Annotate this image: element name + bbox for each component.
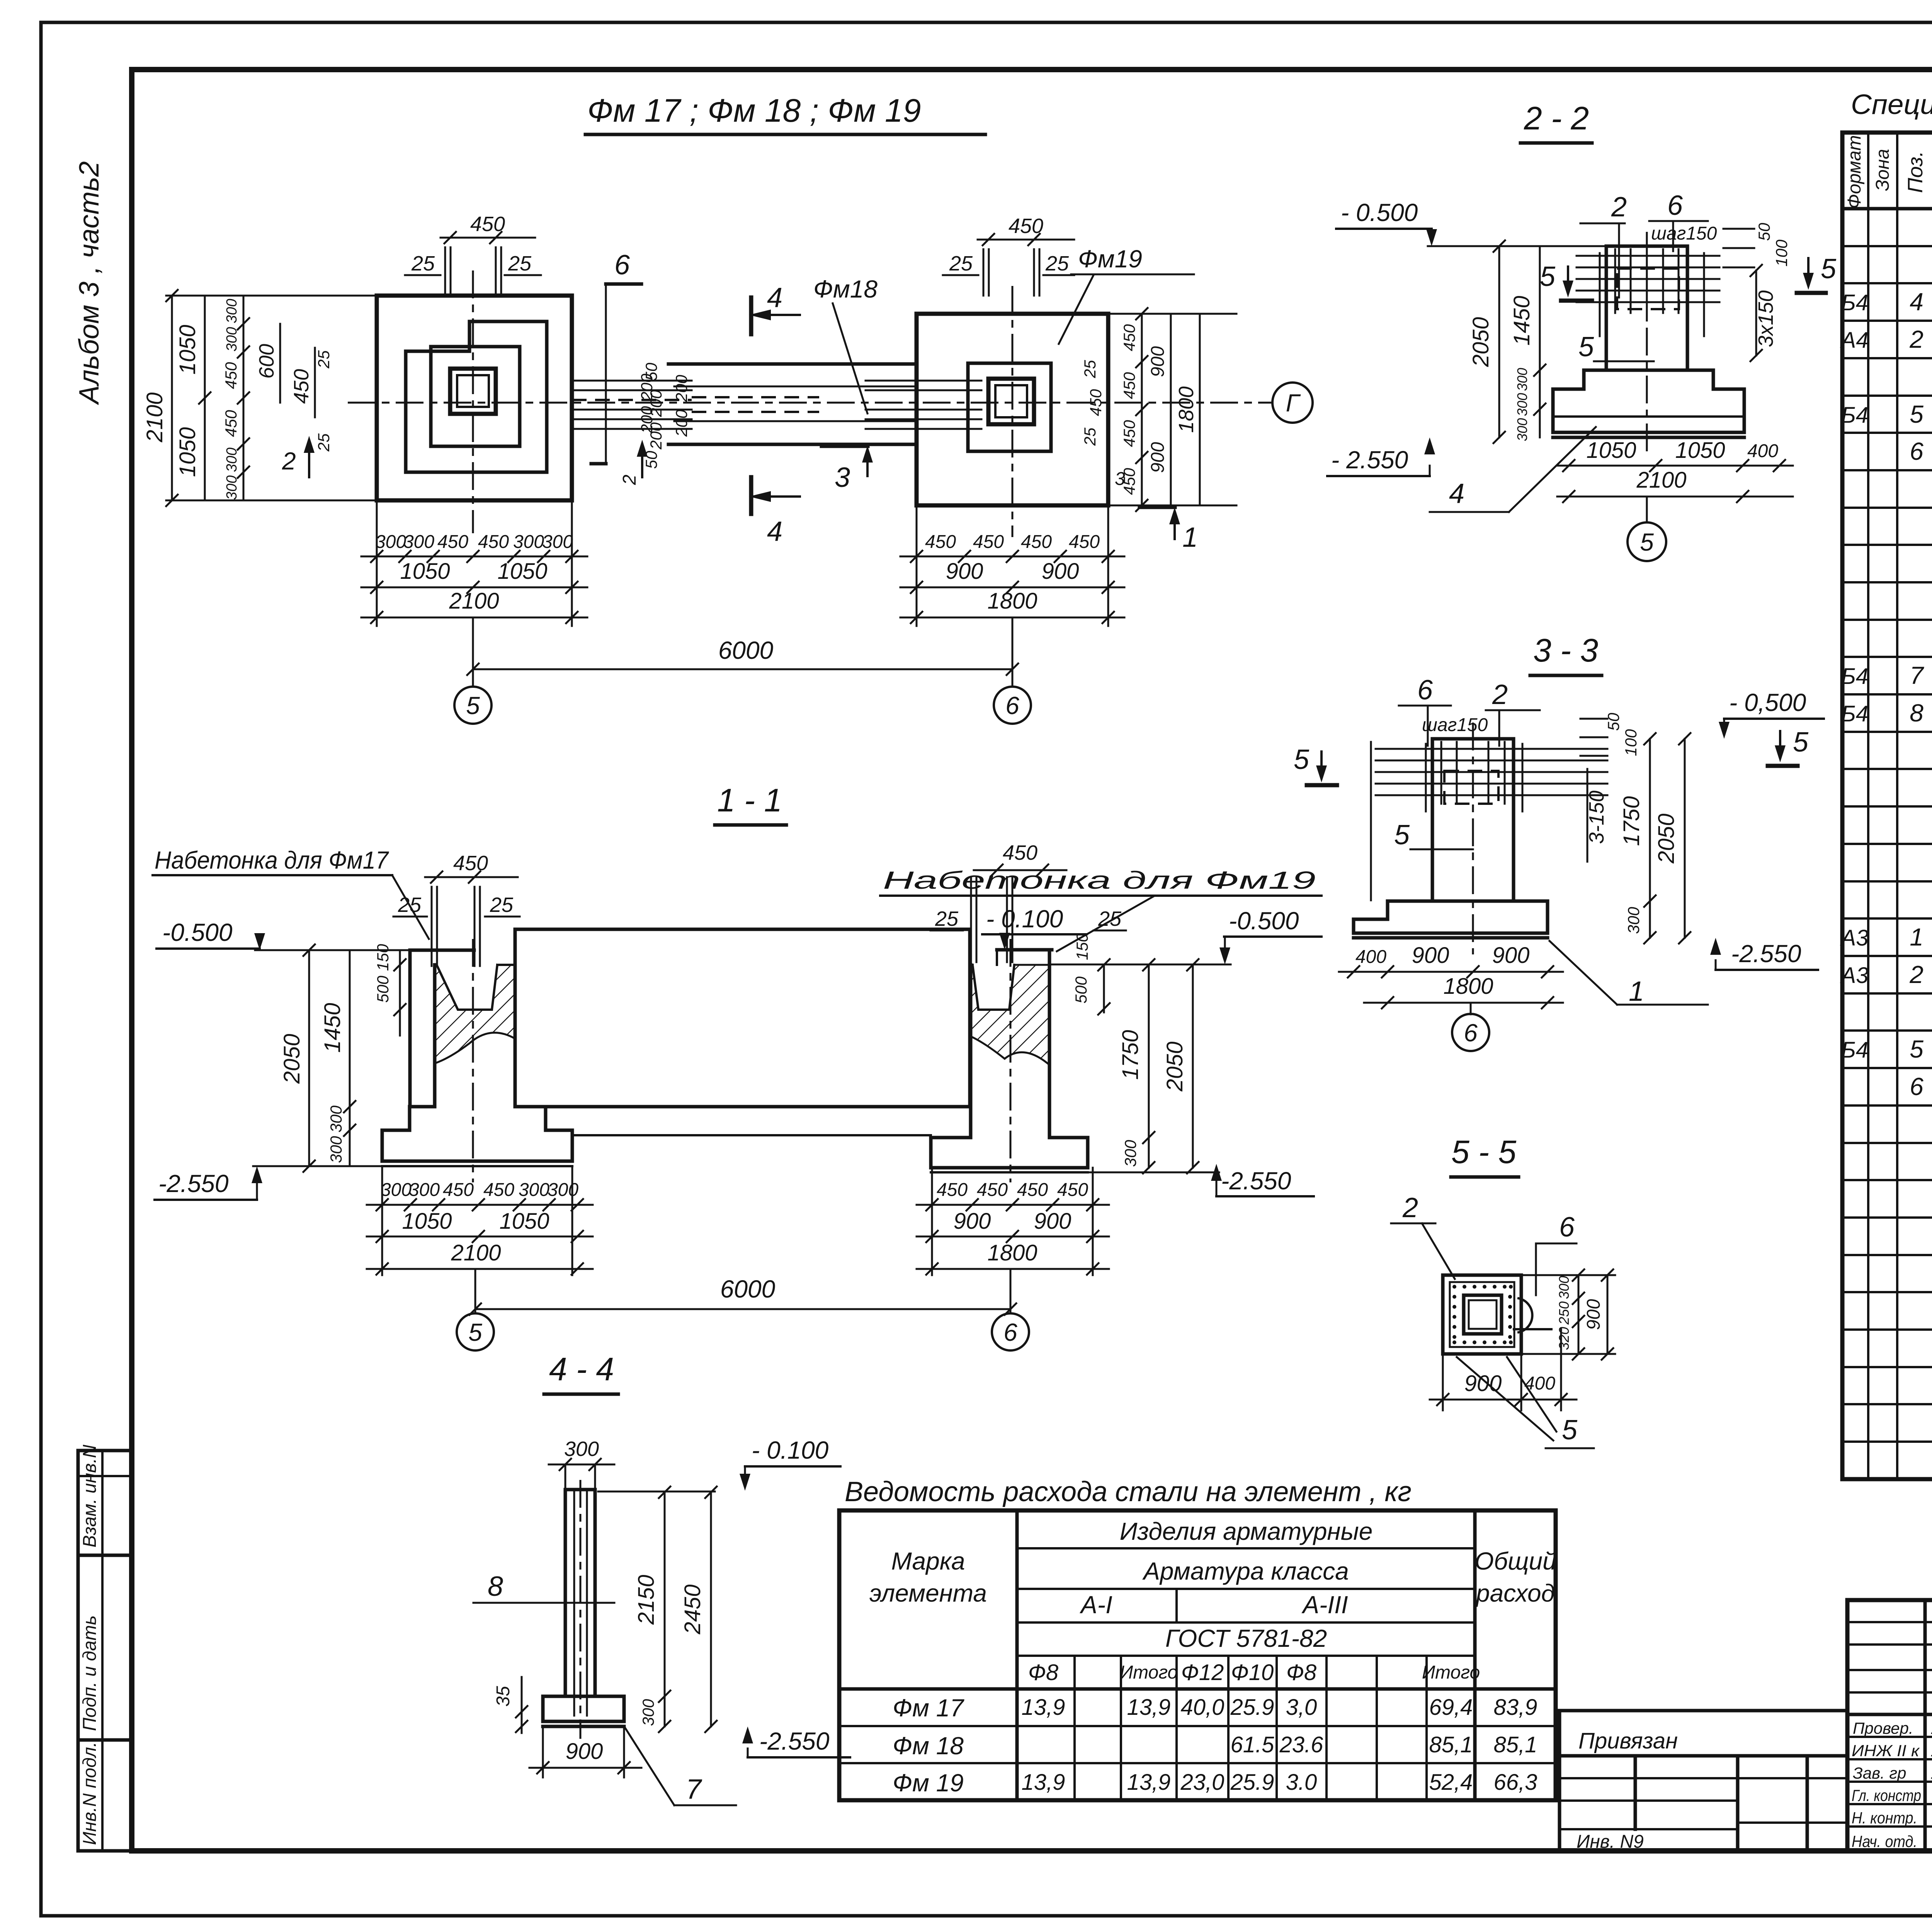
svg-text:900: 900 — [1148, 442, 1168, 473]
svg-text:900: 900 — [1412, 943, 1449, 968]
section 4 marks — [749, 298, 753, 334]
base slab — [1553, 417, 1744, 432]
svg-text:1800: 1800 — [987, 1240, 1037, 1265]
svg-text:6: 6 — [614, 250, 630, 281]
svg-text:300: 300 — [1121, 1139, 1139, 1167]
svg-text:Общий: Общий — [1475, 1547, 1556, 1575]
section 3 mark — [822, 444, 867, 448]
svg-text:2100: 2100 — [449, 588, 499, 614]
svg-text:61.5: 61.5 — [1231, 1732, 1275, 1757]
svg-text:2: 2 — [1909, 961, 1923, 988]
svg-text:450: 450 — [437, 532, 468, 552]
svg-text:5 - 5: 5 - 5 — [1451, 1134, 1516, 1170]
svg-text:25.9: 25.9 — [1230, 1770, 1274, 1795]
svg-text:450: 450 — [453, 852, 488, 875]
svg-text:69,4: 69,4 — [1429, 1695, 1473, 1720]
rebar mesh — [1370, 742, 1372, 900]
label 1 with leader — [1549, 941, 1617, 1005]
svg-text:Альбом 3 , часть2: Альбом 3 , часть2 — [74, 161, 105, 405]
wall — [515, 929, 970, 1107]
svg-text:3-150: 3-150 — [1585, 791, 1608, 844]
svg-text:150: 150 — [1073, 933, 1091, 960]
steps — [1553, 370, 1744, 417]
svg-text:Б4: Б4 — [1841, 701, 1868, 726]
axis circle 6 — [1470, 1003, 1472, 1014]
spec table — [1840, 133, 1932, 1479]
svg-text:23,0: 23,0 — [1180, 1770, 1225, 1795]
svg-text:900: 900 — [566, 1739, 603, 1764]
svg-text:7: 7 — [686, 1774, 702, 1805]
svg-text:450: 450 — [973, 532, 1004, 552]
svg-text:Поз.: Поз. — [1904, 151, 1927, 193]
centerlines — [472, 939, 474, 1182]
svg-text:450: 450 — [478, 532, 509, 552]
rebar dots — [1452, 1285, 1513, 1344]
svg-text:Подп. и дать: Подп. и дать — [80, 1615, 100, 1731]
steel table — [839, 1476, 1556, 1800]
column — [1432, 739, 1514, 901]
svg-text:2: 2 — [1909, 325, 1923, 353]
svg-text:3: 3 — [835, 462, 850, 493]
svg-text:300: 300 — [224, 327, 240, 351]
svg-text:Инв.N подл.: Инв.N подл. — [80, 1742, 100, 1845]
svg-text:Изделия арматурные: Изделия арматурные — [1120, 1517, 1373, 1545]
svg-text:450: 450 — [222, 410, 240, 437]
svg-text:1050: 1050 — [499, 1209, 549, 1234]
svg-text:4 - 4: 4 - 4 — [549, 1351, 614, 1387]
svg-text:Фм19: Фм19 — [1078, 245, 1142, 273]
svg-text:450: 450 — [1057, 1180, 1088, 1200]
svg-text:300: 300 — [513, 532, 544, 552]
svg-text:450: 450 — [1087, 389, 1105, 416]
svg-text:6: 6 — [1910, 437, 1923, 465]
svg-text:450: 450 — [1120, 420, 1138, 447]
svg-text:83,9: 83,9 — [1494, 1695, 1537, 1720]
svg-text:200: 200 — [672, 409, 690, 437]
svg-text:900: 900 — [954, 1209, 991, 1234]
svg-text:6: 6 — [1417, 675, 1433, 706]
section 2-2 — [1327, 100, 1837, 561]
svg-text:320: 320 — [1556, 1327, 1572, 1350]
svg-text:52,4: 52,4 — [1429, 1770, 1473, 1795]
svg-text:200: 200 — [672, 374, 690, 402]
svg-text:5: 5 — [1562, 1415, 1578, 1446]
svg-text:66,3: 66,3 — [1494, 1770, 1537, 1795]
svg-text:шаг150: шаг150 — [1651, 223, 1717, 244]
svg-text:3,0: 3,0 — [1286, 1695, 1317, 1720]
svg-text:25: 25 — [411, 252, 435, 275]
svg-text:900: 900 — [1148, 346, 1168, 377]
svg-text:13,9: 13,9 — [1022, 1770, 1065, 1795]
svg-text:4: 4 — [1910, 288, 1923, 316]
svg-text:5: 5 — [1294, 744, 1310, 775]
centerline FM17 vertical — [472, 270, 474, 533]
base — [543, 1696, 624, 1721]
svg-text:300: 300 — [1624, 906, 1643, 934]
svg-text:2050: 2050 — [279, 1034, 304, 1084]
svg-text:А4: А4 — [1840, 328, 1869, 353]
svg-text:100: 100 — [1772, 239, 1791, 267]
svg-text:Зав. гр: Зав. гр — [1853, 1764, 1906, 1782]
svg-text:1750: 1750 — [1118, 1030, 1143, 1080]
svg-text:450: 450 — [443, 1180, 474, 1200]
svg-text:23.6: 23.6 — [1279, 1732, 1324, 1757]
svg-text:2050: 2050 — [1162, 1041, 1187, 1092]
svg-text:300: 300 — [327, 1136, 345, 1163]
svg-text:25: 25 — [949, 252, 973, 275]
svg-text:Итого: Итого — [1422, 1662, 1480, 1683]
svg-text:3x150: 3x150 — [1754, 290, 1777, 347]
svg-text:Набетонка для Фм17: Набетонка для Фм17 — [155, 846, 389, 874]
svg-text:-2.550: -2.550 — [759, 1727, 830, 1755]
svg-text:900: 900 — [1583, 1299, 1604, 1330]
svg-text:200: 200 — [647, 422, 665, 450]
svg-text:400: 400 — [1747, 441, 1778, 461]
svg-text:Фм 17 ; Фм 18 ; Фм 19: Фм 17 ; Фм 18 ; Фм 19 — [587, 92, 921, 129]
svg-text:300: 300 — [224, 475, 240, 500]
svg-text:2 - 2: 2 - 2 — [1524, 100, 1589, 136]
rebar mesh top — [1577, 255, 1719, 257]
svg-text:25: 25 — [315, 433, 333, 452]
svg-text:-2.550: -2.550 — [1221, 1167, 1291, 1195]
right foundation: column faces — [969, 965, 973, 1138]
svg-text:4: 4 — [767, 282, 782, 313]
svg-text:- 0.100: - 0.100 — [986, 905, 1063, 933]
svg-text:13,9: 13,9 — [1022, 1695, 1065, 1720]
svg-text:- 2.550: - 2.550 — [1331, 446, 1408, 474]
svg-text:Гл. констр: Гл. констр — [1852, 1786, 1921, 1804]
label 5 with leaders — [1457, 1357, 1553, 1440]
svg-text:5: 5 — [1640, 528, 1654, 556]
svg-text:13,9: 13,9 — [1127, 1695, 1171, 1720]
hatched nabetonka left foundation — [435, 965, 515, 1063]
svg-text:450: 450 — [1120, 372, 1138, 399]
svg-text:- 0.500: - 0.500 — [1341, 199, 1418, 226]
svg-text:6: 6 — [1464, 1019, 1478, 1047]
svg-text:Н. контр.: Н. контр. — [1852, 1809, 1917, 1827]
section 5 right mark — [1779, 731, 1781, 757]
svg-text:2: 2 — [619, 474, 640, 485]
svg-text:300: 300 — [564, 1437, 599, 1461]
svg-text:5: 5 — [466, 692, 480, 719]
svg-text:Марка: Марка — [891, 1547, 965, 1575]
plan view — [142, 92, 1313, 724]
wall — [565, 1490, 595, 1696]
svg-text:2: 2 — [282, 447, 296, 475]
svg-text:1: 1 — [1910, 923, 1923, 951]
svg-text:300: 300 — [224, 447, 240, 472]
svg-text:450: 450 — [222, 362, 240, 389]
rebar stubs right — [866, 380, 981, 382]
svg-text:2150: 2150 — [634, 1575, 659, 1625]
left vertical dims — [1498, 246, 1500, 437]
svg-text:Фм 19: Фм 19 — [893, 1769, 964, 1797]
right small dims — [1580, 718, 1607, 720]
svg-text:7: 7 — [1910, 662, 1924, 689]
svg-text:300: 300 — [1514, 418, 1530, 441]
svg-text:400: 400 — [1355, 947, 1386, 967]
title block — [1560, 89, 1932, 1899]
svg-text:450: 450 — [483, 1180, 514, 1200]
svg-text:25: 25 — [315, 350, 333, 369]
axis circle 5 — [1646, 497, 1648, 522]
svg-text:300: 300 — [1514, 368, 1530, 391]
svg-text:6: 6 — [1667, 190, 1683, 221]
svg-text:1050: 1050 — [1586, 438, 1636, 463]
svg-text:2100: 2100 — [451, 1240, 501, 1265]
svg-text:25: 25 — [1045, 252, 1069, 275]
dim 35 — [521, 1677, 523, 1733]
svg-text:2050: 2050 — [1468, 317, 1493, 367]
bottom chains under left base — [381, 1166, 383, 1275]
svg-text:6000: 6000 — [720, 1275, 776, 1303]
svg-text:3.0: 3.0 — [1286, 1770, 1317, 1795]
svg-text:300: 300 — [542, 532, 573, 552]
right chains FM19 — [1108, 313, 1236, 315]
step left foundation — [410, 1107, 546, 1130]
centerline horizontal Г axis — [348, 402, 1272, 404]
svg-text:ГОСТ 5781-82: ГОСТ 5781-82 — [1165, 1624, 1327, 1652]
svg-text:Взам. инв.N: Взам. инв.N — [80, 1444, 100, 1548]
svg-text:300: 300 — [409, 1180, 440, 1200]
svg-text:2: 2 — [1492, 679, 1508, 710]
svg-text:Б4: Б4 — [1841, 1037, 1868, 1063]
svg-text:1050: 1050 — [1675, 438, 1725, 463]
svg-text:Привязан: Привязан — [1578, 1728, 1678, 1753]
svg-text:Б4: Б4 — [1841, 290, 1868, 315]
svg-text:300: 300 — [519, 1180, 549, 1200]
svg-text:25: 25 — [1098, 907, 1122, 930]
svg-text:2100: 2100 — [142, 392, 167, 442]
inner opening — [1464, 1295, 1502, 1334]
svg-text:2450: 2450 — [680, 1584, 705, 1634]
svg-text:Ведомость расхода стали на: Ведомость расхода стали на элемент , кг — [845, 1476, 1412, 1507]
svg-text:2100: 2100 — [1636, 468, 1686, 493]
svg-text:Фм 17: Фм 17 — [893, 1694, 964, 1722]
right dims — [1578, 1275, 1580, 1354]
svg-text:- 0.100: - 0.100 — [752, 1436, 829, 1464]
centerline — [1472, 723, 1474, 954]
FM17 step square with notch — [406, 321, 547, 472]
svg-text:2: 2 — [1611, 192, 1627, 223]
svg-text:5: 5 — [1821, 253, 1837, 284]
svg-text:А-III: А-III — [1301, 1591, 1348, 1619]
svg-text:25: 25 — [935, 907, 959, 930]
FM17 third square — [431, 347, 520, 446]
svg-text:6: 6 — [1003, 1318, 1017, 1346]
svg-text:300: 300 — [548, 1180, 578, 1200]
svg-text:5: 5 — [1540, 261, 1556, 292]
svg-text:1450: 1450 — [320, 1003, 345, 1053]
svg-text:450: 450 — [290, 369, 313, 404]
right vertical dims — [1649, 739, 1651, 938]
svg-text:300: 300 — [639, 1699, 657, 1726]
svg-text:25: 25 — [1081, 360, 1099, 378]
svg-text:450: 450 — [925, 532, 956, 552]
svg-text:450: 450 — [1120, 324, 1138, 351]
svg-text:500: 500 — [374, 975, 392, 1003]
svg-text:900: 900 — [1492, 943, 1530, 968]
svg-text:Арматура класса: Арматура класса — [1142, 1557, 1349, 1585]
Г axis circle — [1272, 383, 1313, 423]
svg-text:450: 450 — [937, 1180, 968, 1200]
svg-text:Нач. отд.: Нач. отд. — [1852, 1832, 1917, 1850]
svg-text:3: 3 — [1115, 469, 1125, 489]
svg-text:А3: А3 — [1840, 963, 1869, 988]
svg-text:450: 450 — [1069, 532, 1100, 552]
svg-text:1750: 1750 — [1619, 796, 1644, 846]
svg-text:300: 300 — [403, 532, 434, 552]
svg-text:Провер.: Провер. — [1853, 1719, 1913, 1737]
left foundation: nabetonka outer face and cap — [408, 950, 412, 1107]
svg-text:300: 300 — [381, 1180, 412, 1200]
svg-text:1800: 1800 — [1175, 386, 1198, 433]
svg-text:расход: расход — [1475, 1579, 1555, 1607]
svg-text:8: 8 — [488, 1571, 503, 1602]
left column faces — [433, 965, 437, 1107]
svg-text:Ф8: Ф8 — [1286, 1660, 1316, 1685]
beam FM18 — [668, 362, 917, 366]
svg-text:1450: 1450 — [1509, 296, 1534, 345]
svg-text:5: 5 — [468, 1318, 482, 1346]
svg-text:4: 4 — [767, 516, 782, 547]
svg-text:300: 300 — [1514, 393, 1530, 416]
svg-text:150: 150 — [374, 944, 392, 971]
svg-text:Б4: Б4 — [1841, 403, 1868, 428]
svg-text:5: 5 — [1910, 1035, 1923, 1063]
svg-text:элемента: элемента — [869, 1579, 987, 1607]
svg-text:Ф8: Ф8 — [1028, 1660, 1058, 1685]
svg-text:5: 5 — [1910, 400, 1923, 428]
axis circles — [454, 687, 492, 724]
svg-text:Итого: Итого — [1120, 1662, 1178, 1683]
svg-text:Б4: Б4 — [1841, 664, 1868, 689]
svg-text:Формат: Формат — [1844, 135, 1865, 209]
svg-text:Спецификация к монолитным ф: Спецификация к монолитным фундаментам Фм… — [1851, 89, 1932, 120]
svg-text:450: 450 — [1017, 1180, 1048, 1200]
section 5-5 — [1391, 1134, 1615, 1448]
left margin texts — [74, 161, 105, 405]
svg-text:900: 900 — [1034, 1209, 1071, 1234]
svg-text:шаг150: шаг150 — [1422, 715, 1488, 735]
svg-text:6000: 6000 — [718, 636, 774, 664]
svg-text:6: 6 — [1910, 1073, 1923, 1100]
right small dims — [1723, 228, 1754, 230]
svg-text:25.9: 25.9 — [1230, 1695, 1274, 1720]
section 4-4 — [473, 1351, 850, 1805]
cup left foundation — [437, 965, 497, 1010]
FM17 column — [450, 369, 496, 414]
label 7 — [625, 1728, 674, 1805]
slab top line between foundations — [572, 1134, 931, 1136]
FM17 outer square — [377, 296, 572, 500]
svg-text:500: 500 — [1072, 976, 1090, 1003]
svg-text:1050: 1050 — [400, 559, 450, 584]
left vertical dims — [308, 950, 310, 1166]
base left foundation — [382, 1130, 572, 1161]
svg-text:900: 900 — [946, 559, 983, 584]
column — [1606, 246, 1687, 370]
svg-text:5: 5 — [1394, 820, 1410, 850]
svg-text:Фм 18: Фм 18 — [893, 1732, 964, 1760]
svg-text:450: 450 — [977, 1180, 1008, 1200]
svg-text:2050: 2050 — [1654, 813, 1679, 864]
svg-text:А-I: А-I — [1079, 1591, 1112, 1619]
centerline — [1646, 232, 1648, 456]
svg-text:-0.500: -0.500 — [162, 918, 233, 946]
svg-text:- 0,500: - 0,500 — [1729, 689, 1806, 716]
svg-text:25: 25 — [1081, 427, 1099, 446]
svg-text:40,0: 40,0 — [1181, 1695, 1225, 1720]
svg-text:1050: 1050 — [497, 559, 547, 584]
FM19 outer square — [917, 314, 1108, 505]
svg-text:25: 25 — [398, 893, 422, 917]
right vertical dims — [1103, 965, 1105, 1012]
svg-text:250: 250 — [1556, 1301, 1572, 1325]
svg-text:3 - 3: 3 - 3 — [1533, 632, 1598, 668]
rebar stubs left — [572, 380, 692, 382]
svg-text:300: 300 — [375, 532, 406, 552]
1 mark bottom right — [1140, 505, 1175, 509]
svg-text:25: 25 — [508, 252, 532, 275]
svg-text:2: 2 — [1402, 1192, 1418, 1223]
svg-text:85,1: 85,1 — [1429, 1732, 1473, 1757]
left stamp strip — [78, 1451, 132, 1851]
svg-text:50: 50 — [1604, 713, 1622, 731]
svg-text:1: 1 — [1182, 522, 1198, 553]
svg-text:25: 25 — [490, 893, 514, 917]
svg-text:1050: 1050 — [175, 325, 200, 374]
svg-text:5: 5 — [1578, 332, 1594, 362]
svg-text:6: 6 — [1559, 1212, 1575, 1243]
svg-text:4: 4 — [1449, 478, 1464, 509]
svg-text:А3: А3 — [1840, 925, 1869, 951]
svg-text:85,1: 85,1 — [1494, 1732, 1537, 1757]
section 1-1 — [153, 782, 1321, 1350]
svg-text:5: 5 — [1793, 727, 1809, 758]
svg-text:900: 900 — [1042, 559, 1079, 584]
svg-text:50: 50 — [1755, 223, 1773, 241]
svg-text:8: 8 — [1910, 699, 1923, 727]
svg-text:450: 450 — [1003, 841, 1037, 864]
svg-text:1050: 1050 — [175, 427, 200, 477]
outer square with double border — [1443, 1275, 1521, 1354]
svg-text:-2.550: -2.550 — [158, 1170, 229, 1197]
svg-text:450: 450 — [1021, 532, 1052, 552]
dims 2150 2450 300 — [664, 1492, 666, 1726]
bottom chains FM17 — [376, 500, 378, 626]
base right foundation — [931, 1138, 1088, 1168]
svg-text:-0.500: -0.500 — [1229, 907, 1299, 935]
svg-text:Зона: Зона — [1872, 149, 1893, 191]
svg-text:Г: Г — [1286, 389, 1301, 417]
svg-text:Ф10: Ф10 — [1231, 1660, 1274, 1685]
svg-text:ИНЖ II к: ИНЖ II к — [1852, 1742, 1920, 1760]
svg-text:300: 300 — [224, 299, 240, 323]
left dim chains of FM17 — [166, 295, 377, 297]
svg-text:Инв. N9: Инв. N9 — [1577, 1832, 1644, 1852]
svg-text:35: 35 — [493, 1686, 514, 1707]
svg-text:1 - 1: 1 - 1 — [717, 782, 782, 818]
hook — [1519, 1298, 1532, 1332]
svg-text:1800: 1800 — [1443, 974, 1493, 999]
svg-text:Ф12: Ф12 — [1181, 1660, 1224, 1685]
cup right foundation — [973, 965, 1014, 1010]
svg-text:1050: 1050 — [402, 1209, 452, 1234]
svg-text:Набетонка для Фм19: Набетонка для Фм19 — [883, 866, 1316, 894]
svg-text:300: 300 — [327, 1105, 345, 1133]
svg-text:300: 300 — [1556, 1276, 1572, 1299]
